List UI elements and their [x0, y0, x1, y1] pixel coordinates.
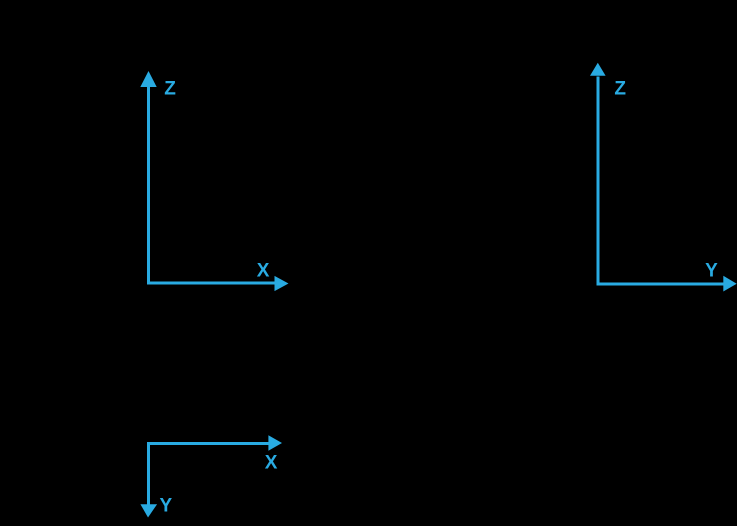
svg-text:Z: Z [614, 79, 626, 100]
bottom view: Y-axis shaft (vertical wire) [147, 442, 150, 505]
right view: Z-axis arrowhead [590, 63, 606, 76]
left view: X-axis arrowhead [275, 276, 289, 291]
bottom view: X-axis shaft (horizontal wire) [147, 442, 270, 445]
svg-text:Y: Y [160, 495, 173, 516]
svg-text:Y: Y [705, 261, 718, 282]
svg-text:Z: Z [164, 78, 176, 99]
bottom view: X-axis arrowhead [268, 435, 282, 450]
svg-text:X: X [257, 260, 270, 281]
left view: Z-axis shaft (vertical wire) [147, 85, 150, 285]
bottom view: Y-axis arrowhead [140, 504, 157, 517]
right view: Z-axis shaft (vertical wire) [597, 77, 600, 286]
right view: Y-axis shaft (horizontal wire) [597, 283, 726, 286]
svg-text:X: X [265, 452, 278, 473]
left view: Z-axis arrowhead [140, 71, 156, 87]
left view: X-axis shaft (horizontal wire) [147, 282, 276, 285]
right view: Y-axis arrowhead [723, 276, 736, 292]
